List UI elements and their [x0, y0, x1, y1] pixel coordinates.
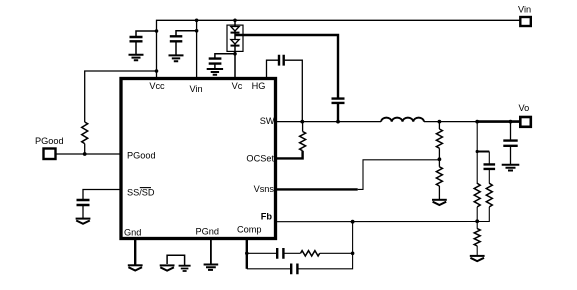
ground (arrow) below C10	[76, 218, 91, 220]
wire PGood pin to pad	[56, 153, 122, 155]
node junction Vc pin / C3 tap	[233, 52, 237, 56]
wire comp branch2 to C9	[247, 268, 290, 270]
port pad PGood	[44, 149, 56, 160]
wire R5 to Fb line	[476, 207, 478, 222]
wire SW to R2	[302, 122, 304, 132]
svg-text:OCSet: OCSet	[246, 154, 274, 164]
wire ground bridge (arrow gnd to earth gnd)	[167, 255, 185, 265]
node junction rail / diode branch	[233, 19, 237, 23]
wire stub to feedforward branch	[477, 151, 489, 153]
svg-text:SW: SW	[260, 116, 275, 126]
node Vin-rail / Vcc rail corner junction at cap1 tap	[155, 29, 159, 33]
node junction divider / feedforward stub	[476, 150, 479, 153]
wire PGnd pin stub	[210, 240, 212, 264]
ground (earth) below C2	[169, 55, 184, 61]
ground (earth) bridge right	[179, 266, 191, 271]
wire C6 to ground	[510, 146, 512, 165]
svg-text:Vin: Vin	[189, 84, 202, 94]
wire C1 to ground	[135, 41, 137, 54]
capacitor C7 (feedforward)	[484, 164, 496, 169]
svg-text:Vcc: Vcc	[149, 81, 165, 91]
resistor R7 (feedforward series)	[486, 183, 492, 207]
wire Vo node to divider	[476, 122, 478, 184]
node junction Vo line / divider	[475, 120, 479, 124]
wire PGood pullup from Vcc rail	[85, 71, 157, 122]
svg-text:Vsns: Vsns	[254, 184, 275, 194]
svg-text:Vo: Vo	[519, 103, 530, 113]
resistor R8 (comp series res)	[301, 251, 320, 256]
wire C3 to ground	[214, 64, 216, 69]
svg-text:Vin: Vin	[518, 5, 531, 15]
capacitor C8 (comp series cap)	[277, 248, 283, 259]
wire C2 to ground	[175, 41, 177, 55]
svg-text:Vc: Vc	[232, 81, 243, 91]
wire comp branch1 to C8	[247, 252, 276, 254]
wire capacitor C2 top connection	[176, 31, 197, 36]
wire R7 down to Fb line	[477, 207, 489, 222]
diode D1 (top, in box)	[231, 27, 239, 32]
wire Vin pin from rail	[196, 20, 198, 77]
wire C4 to SW rail	[285, 60, 303, 121]
svg-text:SS/SD: SS/SD	[127, 188, 155, 198]
capacitor C6 (output)	[503, 141, 517, 146]
capacitor C10 (soft start)	[77, 200, 90, 205]
node junction Vin pin / C2 tap	[195, 29, 199, 33]
node junction rail / Vin pin	[195, 19, 199, 23]
svg-text:PGood: PGood	[127, 151, 156, 161]
node junction inductor output / R3	[438, 120, 442, 124]
svg-text:Comp: Comp	[237, 225, 262, 235]
ground (arrow) below R4	[432, 199, 447, 201]
svg-text:Gnd: Gnd	[124, 228, 141, 238]
wire stub to C7	[488, 152, 490, 165]
wire Vsns node to R4	[438, 159, 440, 167]
wire R3 to Vsns node	[438, 148, 440, 159]
node junction PGood pullup to Vcc pin	[155, 69, 159, 73]
wire bootstrap tap from between diodes to C5	[235, 35, 338, 98]
resistor R6 (divider bottom)	[474, 229, 480, 246]
ground (earth) below C3	[207, 69, 223, 75]
wire Fb line to R6	[476, 222, 478, 229]
wire R2 to OCSet pin	[277, 151, 303, 159]
wire diode branch from rail to Vc pin	[234, 20, 236, 77]
wire Gnd pin stub	[134, 240, 136, 265]
capacitor C1 (Vcc bypass)	[130, 37, 143, 41]
wire capacitor C3 connection	[215, 54, 235, 58]
wire R4 to ground	[438, 186, 440, 199]
ground (arrow) bridge left	[160, 264, 175, 266]
wire C8 to R8	[284, 252, 300, 254]
port pad Vin	[520, 17, 531, 26]
node junction Fb line / comp network riser	[351, 220, 355, 224]
svg-text:Fb: Fb	[261, 212, 273, 222]
wire HG pin to series cap C4 and down to SW	[267, 60, 279, 77]
wire R8 to riser	[320, 252, 353, 254]
node junction C5 / SW rail	[336, 120, 340, 124]
diode D2 (bottom, in box)	[231, 40, 239, 45]
ground (arrow) below Gnd pin	[128, 264, 143, 266]
wire Comp pin down from IC bottom	[246, 240, 248, 269]
wire SS/SD pin to soft-start cap	[83, 190, 121, 200]
wire Vsns pin stepped connection	[277, 188, 358, 190]
port pad Vo	[520, 117, 531, 127]
overline over SD	[140, 187, 151, 189]
ground (earth) below PGnd pin	[204, 265, 219, 270]
node junction Comp branch split	[245, 252, 249, 256]
resistor R3 (SW to Vsns divider top)	[436, 129, 442, 148]
node junction comp branches	[351, 252, 355, 256]
wire SW node to R3	[438, 122, 440, 129]
node junction PGood	[83, 152, 87, 156]
wire output cap C6	[510, 122, 512, 140]
wire C7 to R7	[488, 169, 490, 184]
svg-text:PGnd: PGnd	[196, 227, 220, 237]
resistor R4 (Vsns node to ground)	[436, 167, 442, 186]
capacitor C2 (Vin bypass)	[170, 36, 183, 41]
wire C5 to SW rail	[337, 103, 339, 122]
wire inductor to Vo node	[424, 121, 477, 123]
ground (arrow) below R6	[470, 255, 485, 257]
resistor R2 (OCSet)	[300, 132, 306, 151]
wire C10 to ground	[82, 205, 84, 218]
capacitor C3 (Vc bypass)	[209, 59, 222, 64]
wire Fb pin line	[277, 221, 477, 223]
node junction Vo line / output cap	[509, 120, 513, 124]
wire R1 to PGood node	[84, 144, 86, 154]
ground (earth) below C6	[502, 165, 520, 171]
capacitor C9 (comp parallel cap)	[291, 264, 297, 275]
capacitor C5 (bootstrap)	[332, 99, 345, 103]
resistor R5 (divider top)	[474, 183, 480, 207]
wire C9 to riser and riser up to Fb line	[298, 222, 352, 269]
wire Vo thick segment to pad	[477, 120, 520, 123]
resistor R1 (PGood pullup)	[82, 122, 88, 144]
box around D1 D2	[227, 25, 243, 51]
wire top Vin rail	[157, 20, 521, 77]
node junction Vsns tap	[438, 157, 442, 161]
svg-text:HG: HG	[252, 81, 266, 91]
node junction Fb line / divider	[475, 219, 479, 223]
capacitor C4 (HG series)	[279, 55, 284, 66]
inductor L1	[381, 118, 424, 122]
wire capacitor C1 top connection	[136, 31, 157, 36]
wire R6 to ground	[476, 246, 478, 256]
svg-text:PGood: PGood	[35, 136, 64, 146]
ground (earth) below C1	[129, 55, 144, 60]
op-amp U1 (regulator IC body)	[121, 79, 276, 239]
node junction HG branch / SW rail	[300, 120, 304, 124]
wire SW rail from IC to inductor	[277, 121, 381, 123]
